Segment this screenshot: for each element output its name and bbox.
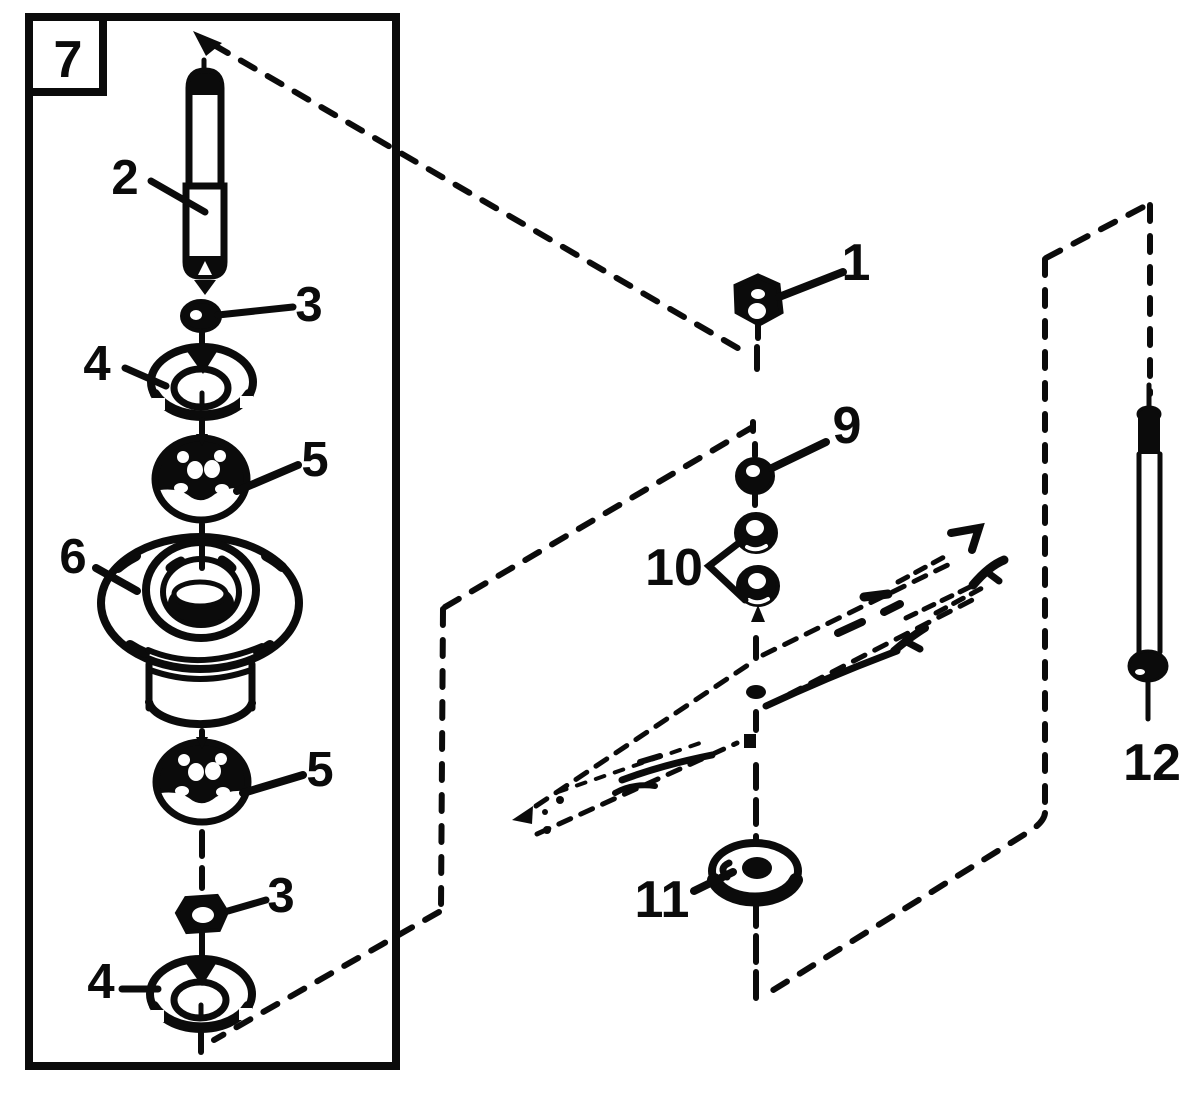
part 3 bottom nut [177,896,227,957]
wire: dash below housing [199,731,205,741]
blade right tip dashes [898,556,946,582]
leader for 1 [779,272,843,297]
leader for 2 [151,181,205,212]
svg-text:11: 11 [635,871,690,929]
label 7 box [29,17,103,92]
blade dashed outline lower-right edge [768,596,980,705]
part 9 nut [737,459,773,505]
part 5 upper bearing [155,434,247,523]
part 11 washer [712,843,798,900]
wire: left vertical dashed of plane [441,609,443,907]
blade dashed outline upper-left edge [536,665,748,806]
wire: dashes above nut 9 [753,422,755,456]
svg-text:9: 9 [833,397,862,455]
svg-text:10: 10 [645,539,703,597]
wire: mid dashed diagonal to nut 9 [445,428,751,607]
leader for 11 [694,872,733,891]
wire: dash between 5 and 6 [199,524,205,568]
part 1 hex nut [736,276,781,338]
svg-text:5: 5 [306,743,333,797]
part 4 bottom slotted washer [150,959,252,1052]
leader for 6 [96,568,137,591]
arrowhead of top diagonal [193,31,222,56]
enclosure box [29,17,396,1066]
part 2 spindle shaft [186,60,224,295]
part 4 top slotted washer [151,347,253,417]
wire: far right vertical dashed [1147,205,1153,394]
svg-text:7: 7 [54,31,83,89]
svg-text:5: 5 [301,433,328,487]
wire: top-right dashed diagonal [1046,204,1149,258]
svg-text:2: 2 [111,151,138,205]
part 12 bolt [1129,385,1167,719]
wire: dashes below washer 11 [753,902,759,998]
part 10 washers [736,514,778,622]
svg-text:6: 6 [59,530,86,584]
leader for 4 top [125,368,166,386]
leader for 3 bottom [228,900,266,911]
blade right tip solid cluster [951,528,979,550]
leader bracket for 10 [709,539,745,600]
leader for 5 top [237,465,298,491]
svg-text:12: 12 [1123,734,1181,792]
blade solid ridge right [766,651,897,706]
leader for 3 top [218,307,293,315]
blade centre hole [746,685,766,699]
leader for 4 bottom [122,986,158,993]
wire: dash between 4 and 5 [199,420,205,436]
blade left tip arrow [512,806,533,824]
leader for 5 bottom [243,775,303,793]
leader for 9 [772,442,826,468]
wire: top dashed diagonal from box to nut 1 [214,45,748,354]
blade interior dashed fold line [558,742,703,792]
wire: right vertical dashed of plane [1042,259,1048,816]
svg-text:3: 3 [267,869,294,923]
blade solid cutting squiggle left [615,785,655,793]
wire: dash between 3 and 4 [199,332,205,346]
svg-text:1: 1 [842,234,871,292]
blade dashed outline lower-left edge [537,743,737,834]
blade dashed outline upper-right edge [763,561,956,655]
blade centre square [744,734,756,748]
part 6 spindle housing [101,537,299,724]
svg-text:4: 4 [83,337,110,391]
wire: dashes between lower bearing and nut [199,832,205,888]
blade solid mid-right marks [838,622,862,633]
part 5 lower bearing [156,737,248,825]
wire: bottom-right dashed diagonal [762,813,1045,997]
part 3 top nut [182,301,220,331]
wire: centre dashes through blade [753,638,759,843]
wire: bottom-left dashed diagonal [214,912,439,1040]
wire: dashes below nut 1 [754,347,760,369]
svg-text:3: 3 [295,278,322,332]
svg-text:4: 4 [87,955,114,1009]
